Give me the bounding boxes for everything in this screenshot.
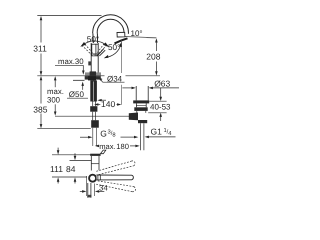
drain body xyxy=(136,103,146,107)
handle solid diagonal xyxy=(97,49,103,56)
deck line right part xyxy=(126,75,161,77)
svg-text:208: 208 xyxy=(146,52,160,62)
faucet body xyxy=(90,43,99,76)
svg-text:max.180: max.180 xyxy=(99,142,129,151)
drain locknut xyxy=(134,107,147,111)
handle stem xyxy=(91,44,93,56)
tailpipe xyxy=(140,123,142,150)
pop-up knob xyxy=(88,61,91,65)
svg-text:140: 140 xyxy=(101,99,115,109)
handle base top edge xyxy=(91,43,99,45)
mounting nut below deck xyxy=(85,76,101,80)
deck line left part xyxy=(37,75,104,77)
svg-text:111: 111 xyxy=(50,164,63,174)
spout left tube to body xyxy=(92,33,94,43)
svg-text:311: 311 xyxy=(33,43,47,53)
svg-text:40-53: 40-53 xyxy=(150,102,171,111)
dimension max.300 xyxy=(54,76,57,116)
pop-up rod line xyxy=(55,115,129,117)
stream extension line lower xyxy=(121,85,123,105)
escutcheon xyxy=(85,72,101,75)
nut 1 xyxy=(90,106,97,112)
drain flange xyxy=(133,100,149,103)
dashed lever up xyxy=(96,161,135,192)
svg-text:Ø50: Ø50 xyxy=(69,90,85,99)
stream extension line upper xyxy=(121,40,123,73)
svg-text:34: 34 xyxy=(99,183,108,192)
handle dashed positions xyxy=(81,43,108,56)
extension line at hose end xyxy=(37,128,91,130)
spout inner arc xyxy=(97,19,124,33)
G3/8 callout xyxy=(80,136,89,138)
solid lever xyxy=(96,175,133,180)
50 deg arc #2 xyxy=(105,44,121,58)
svg-text:385: 385 xyxy=(33,104,47,114)
svg-text:Ø63: Ø63 xyxy=(154,78,170,88)
pivot housing xyxy=(129,113,138,121)
aerator xyxy=(117,32,125,37)
handle tab xyxy=(100,150,105,154)
nipple lines xyxy=(92,128,94,146)
spout outer arc xyxy=(93,15,129,34)
bottom view: dimension 111 xyxy=(52,154,91,156)
threaded shank xyxy=(90,80,97,101)
svg-text:84: 84 xyxy=(66,164,76,174)
bottom view: dimension 84 xyxy=(70,159,92,161)
svg-text:50°: 50° xyxy=(87,35,99,44)
dimension 385 xyxy=(40,76,43,128)
svg-text:50°: 50° xyxy=(108,43,120,52)
50 deg arc #1 xyxy=(82,41,109,46)
dimension 208 xyxy=(155,38,158,75)
pop-up drain plug xyxy=(135,86,137,100)
drain body lower xyxy=(137,111,146,113)
small leader at shank xyxy=(100,99,107,101)
dimension 311 xyxy=(40,16,43,76)
hose nut G3/8 xyxy=(91,120,99,128)
top extension line xyxy=(37,15,101,17)
body below pivot xyxy=(87,183,89,198)
stem 2 xyxy=(92,112,94,121)
stem xyxy=(92,102,94,107)
D63 dimension xyxy=(122,87,133,89)
dimension 40-53 xyxy=(160,88,162,98)
10 deg angle wedge xyxy=(115,38,128,43)
handle cap xyxy=(90,154,100,156)
pivot ring xyxy=(89,175,96,182)
svg-text:300: 300 xyxy=(47,95,61,104)
lever collar xyxy=(97,175,99,180)
dimension 140 xyxy=(94,103,121,106)
dimension 34 xyxy=(86,176,88,196)
svg-text:max.30: max.30 xyxy=(58,57,84,66)
handle neck xyxy=(90,156,92,171)
dimension max.180 xyxy=(95,145,99,148)
pivot nut on pipe xyxy=(138,120,147,123)
